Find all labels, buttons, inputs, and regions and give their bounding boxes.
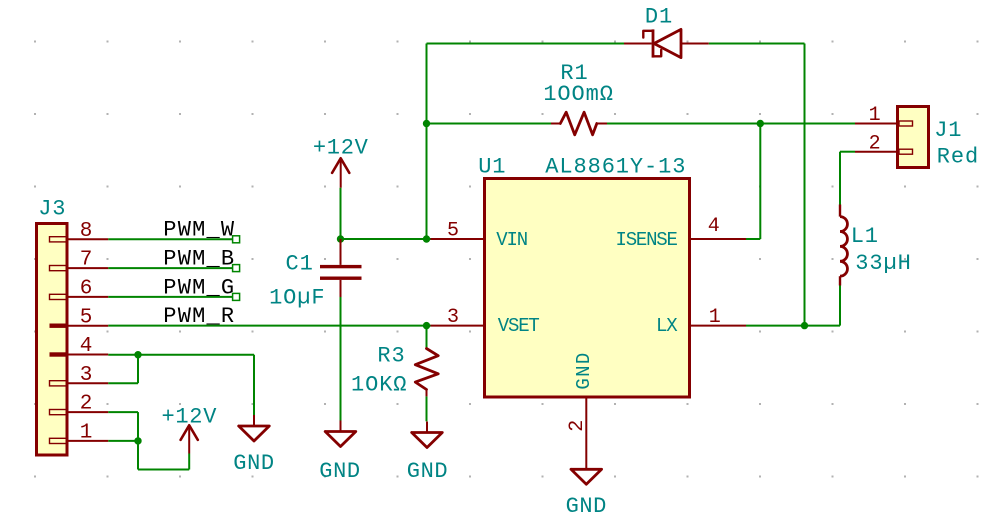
svg-text:U1: U1 — [478, 154, 506, 179]
svg-text:GND: GND — [233, 451, 274, 476]
svg-text:PWM_W: PWM_W — [163, 218, 235, 243]
svg-text:6: 6 — [80, 278, 93, 301]
svg-text:PWM_G: PWM_G — [163, 275, 235, 300]
svg-text:D1: D1 — [645, 4, 673, 29]
svg-text:2: 2 — [869, 132, 881, 155]
svg-text:2: 2 — [566, 420, 589, 432]
svg-text:1OKΩ: 1OKΩ — [351, 372, 407, 397]
svg-text:+12V: +12V — [313, 136, 369, 161]
svg-text:C1: C1 — [285, 251, 313, 276]
svg-text:LX: LX — [656, 315, 678, 337]
svg-text:1: 1 — [709, 306, 721, 329]
svg-text:8: 8 — [80, 220, 93, 243]
svg-text:VSET: VSET — [498, 315, 540, 337]
svg-text:R3: R3 — [377, 343, 405, 368]
svg-text:PWM_B: PWM_B — [163, 247, 235, 272]
svg-text:GND: GND — [319, 459, 360, 484]
svg-text:PWM_R: PWM_R — [163, 304, 235, 329]
svg-text:1: 1 — [80, 422, 93, 445]
svg-text:1: 1 — [869, 104, 881, 127]
svg-text:VIN: VIN — [496, 229, 527, 251]
svg-text:L1: L1 — [851, 224, 879, 249]
svg-text:J3: J3 — [38, 197, 66, 222]
svg-text:1OµF: 1OµF — [269, 286, 325, 311]
svg-text:5: 5 — [80, 306, 93, 329]
svg-text:2: 2 — [80, 393, 93, 416]
svg-text:Red: Red — [937, 144, 979, 169]
svg-text:GND: GND — [566, 494, 607, 519]
svg-text:5: 5 — [447, 220, 459, 243]
svg-text:GND: GND — [407, 459, 448, 484]
svg-text:GND: GND — [573, 351, 595, 389]
svg-text:33µH: 33µH — [855, 251, 911, 276]
svg-text:7: 7 — [80, 249, 93, 272]
svg-text:AL8861Y-13: AL8861Y-13 — [545, 154, 686, 179]
svg-text:4: 4 — [80, 335, 93, 358]
svg-text:J1: J1 — [934, 118, 962, 143]
svg-text:ISENSE: ISENSE — [616, 229, 678, 251]
svg-text:1OOmΩ: 1OOmΩ — [543, 82, 614, 107]
svg-text:+12V: +12V — [161, 404, 217, 429]
svg-text:3: 3 — [80, 364, 93, 387]
svg-text:4: 4 — [708, 215, 720, 238]
svg-text:3: 3 — [447, 306, 459, 329]
